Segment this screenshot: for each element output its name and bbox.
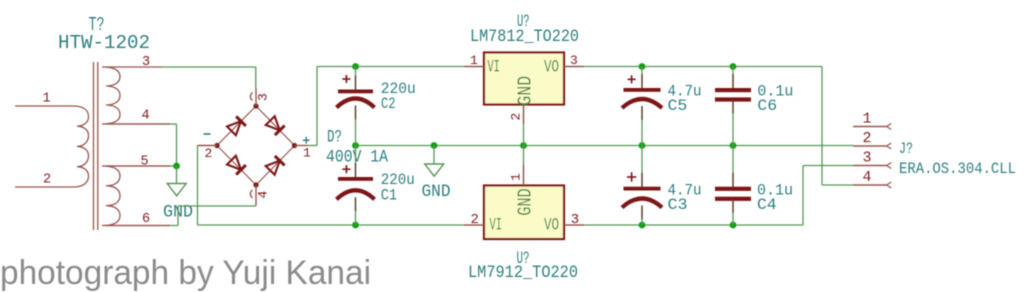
svg-text:1: 1: [863, 111, 872, 128]
svg-text:2: 2: [471, 212, 479, 228]
svg-text:J?: J?: [899, 140, 913, 158]
svg-text:3: 3: [570, 53, 578, 68]
svg-text:1: 1: [509, 173, 524, 181]
svg-text:GND: GND: [515, 76, 537, 106]
svg-text:VI: VI: [487, 59, 500, 78]
svg-text:photograph by Yuji Kanai: photograph by Yuji Kanai: [0, 254, 371, 292]
svg-text:6: 6: [142, 212, 150, 227]
svg-text:C1: C1: [381, 186, 397, 204]
svg-text:C5: C5: [668, 97, 688, 115]
svg-text:2: 2: [509, 113, 524, 121]
svg-text:3: 3: [142, 55, 150, 70]
svg-text:C3: C3: [668, 196, 688, 214]
svg-text:C6: C6: [757, 97, 777, 115]
svg-text:VI: VI: [490, 217, 503, 236]
svg-text:1: 1: [43, 92, 51, 107]
svg-text:LM7812_TO220: LM7812_TO220: [470, 27, 579, 47]
svg-text:GND: GND: [515, 188, 537, 216]
svg-text:4: 4: [256, 191, 271, 199]
svg-text:1: 1: [470, 53, 478, 68]
svg-text:1: 1: [303, 145, 311, 160]
svg-text:ERA.OS.304.CLL: ERA.OS.304.CLL: [899, 160, 1016, 178]
svg-text:4: 4: [863, 169, 872, 186]
svg-text:D?: D?: [327, 128, 342, 148]
svg-text:VO: VO: [544, 217, 559, 236]
svg-text:LM7912_TO220: LM7912_TO220: [468, 263, 578, 283]
svg-text:3: 3: [256, 93, 271, 101]
svg-text:C4: C4: [757, 196, 777, 214]
svg-text:2: 2: [205, 146, 213, 161]
svg-text:C2: C2: [381, 95, 396, 113]
svg-text:4: 4: [142, 109, 150, 124]
svg-text:5: 5: [141, 155, 149, 170]
svg-text:HTW-1202: HTW-1202: [58, 32, 150, 54]
svg-text:3: 3: [571, 212, 579, 228]
svg-text:2: 2: [863, 130, 872, 147]
svg-text:3: 3: [863, 150, 872, 167]
svg-text:2: 2: [43, 172, 51, 187]
svg-text:GND: GND: [422, 182, 451, 202]
svg-text:400V 1A: 400V 1A: [326, 148, 388, 168]
svg-text:VO: VO: [544, 59, 559, 78]
